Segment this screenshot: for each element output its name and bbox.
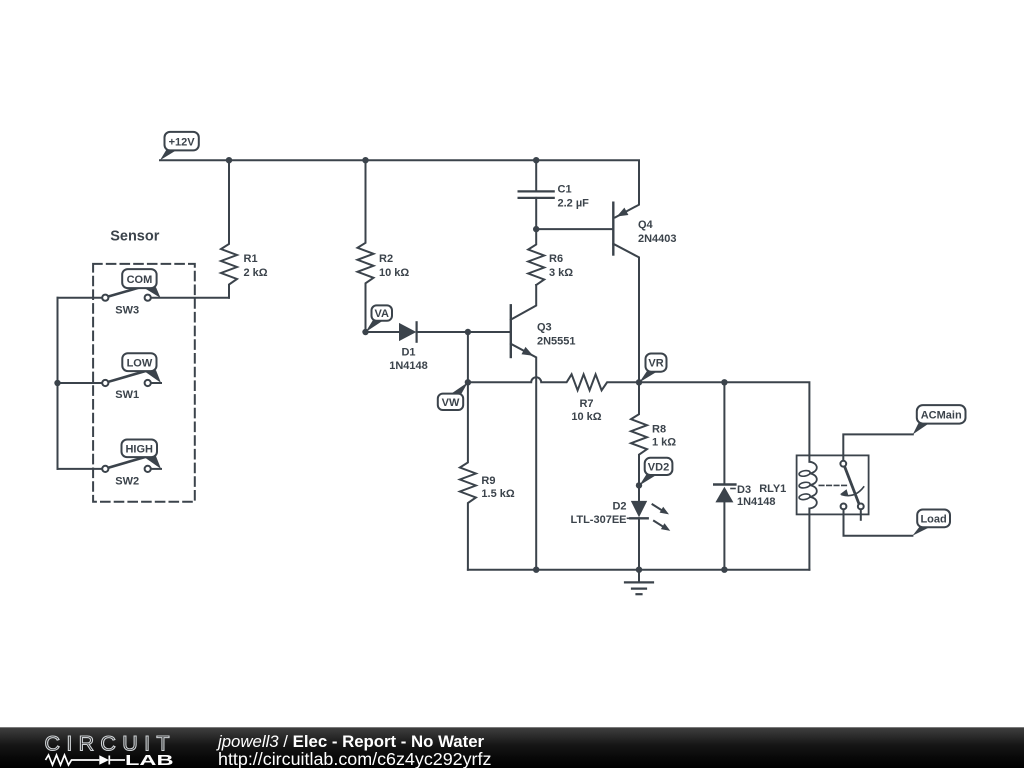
node: +12V/R1	[226, 157, 232, 163]
svg-text:2N4403: 2N4403	[638, 233, 677, 245]
svg-text:C1: C1	[558, 184, 572, 196]
svg-text:LTL-307EE: LTL-307EE	[570, 514, 626, 526]
resistor R2	[358, 160, 374, 332]
svg-text:1N4148: 1N4148	[737, 496, 776, 508]
resistor R9	[460, 382, 476, 569]
LED D2 (LTL-307EE)	[628, 501, 671, 531]
capacitor C1	[519, 191, 554, 198]
wire: C1 bottom lead	[535, 198, 537, 229]
wire: D1 cathode to Q3 base	[417, 331, 511, 333]
wire: SW3 to R1	[151, 297, 229, 299]
wire: D3 bottom lead	[723, 502, 725, 569]
svg-text:Load: Load	[920, 514, 946, 526]
wire: D3 top lead	[723, 382, 725, 484]
net flag +12V	[160, 132, 199, 160]
svg-text:2.2 µF: 2.2 µF	[558, 198, 590, 210]
node VW	[465, 379, 471, 385]
svg-text:R6: R6	[549, 253, 563, 265]
net flag VA	[366, 305, 393, 332]
transistor Q4 (2N4403 PNP)	[613, 203, 628, 255]
node: +12V/C1	[533, 157, 539, 163]
node: D2/ground rail	[636, 567, 642, 573]
svg-text:RLY1: RLY1	[759, 483, 786, 495]
diode D1 (1N4148)	[399, 322, 417, 341]
svg-text:10 kΩ: 10 kΩ	[379, 267, 409, 279]
svg-text:D3: D3	[737, 484, 751, 496]
svg-text:1N4148: 1N4148	[389, 360, 428, 372]
resistor R1	[221, 160, 237, 298]
svg-text:1.5 kΩ: 1.5 kΩ	[481, 488, 514, 500]
net flag VR	[639, 354, 666, 383]
switch SW3	[102, 285, 151, 301]
wire: base junction down to VW node	[467, 332, 469, 382]
net flag HIGH	[122, 440, 162, 469]
svg-text:SW3: SW3	[115, 305, 139, 317]
wire: VR rail to relay coil	[639, 382, 809, 461]
switch SW1	[102, 370, 161, 386]
transistor Q3 (2N5551 NPN)	[511, 285, 536, 570]
svg-text:2N5551: 2N5551	[537, 336, 576, 348]
wire: Q4 base	[536, 228, 613, 230]
node: D3/ground rail	[721, 567, 727, 573]
switch SW2	[102, 456, 161, 472]
svg-text:R7: R7	[579, 398, 593, 410]
svg-text:R8: R8	[652, 424, 666, 436]
svg-text:3 kΩ: 3 kΩ	[549, 267, 573, 279]
svg-text:10 kΩ: 10 kΩ	[571, 411, 601, 423]
svg-text:SW2: SW2	[115, 476, 139, 488]
net flag LOW	[122, 353, 161, 383]
svg-text:Sensor: Sensor	[110, 229, 160, 245]
svg-text:D2: D2	[612, 501, 626, 513]
node: sensor left rail junction	[54, 380, 60, 386]
wire: VD2 node to D2 anode	[638, 485, 640, 501]
CircuitLab logo	[0, 728, 200, 768]
wire: left stub to SW3	[58, 297, 103, 299]
net flag VW	[438, 382, 468, 410]
wire: VA node to D1 anode	[366, 331, 400, 333]
node: Q3 emitter/ground rail	[533, 567, 539, 573]
wire: ground rail	[468, 569, 810, 571]
svg-text:R2: R2	[379, 253, 393, 265]
wire: VW rail with hop over Q3 emitter, into resistor R7	[468, 374, 639, 390]
svg-text:VW: VW	[442, 397, 460, 409]
svg-text:HIGH: HIGH	[125, 444, 153, 456]
svg-text:SW1: SW1	[115, 389, 139, 401]
net flag COM	[122, 269, 160, 298]
svg-text:+12V: +12V	[169, 136, 196, 148]
svg-text:2 kΩ: 2 kΩ	[244, 267, 268, 279]
svg-text:VA: VA	[374, 308, 389, 320]
svg-text:D1: D1	[401, 347, 415, 359]
wire: ACMain to relay common	[843, 434, 913, 460]
node: +12V/R2	[362, 157, 368, 163]
diode D3 (1N4148 flyback)	[714, 485, 735, 503]
wire: left stub to SW2	[58, 468, 103, 470]
svg-text:R1: R1	[244, 253, 258, 265]
resistor R8	[631, 382, 647, 485]
relay RLY1	[797, 455, 869, 519]
wire: Q4 collector to VR node	[613, 244, 639, 382]
wire: sensor left rail	[57, 298, 59, 469]
ground	[625, 570, 653, 595]
wire: relay coil bottom to ground rail	[808, 509, 810, 570]
resistor R6	[528, 229, 544, 285]
node VR	[636, 379, 642, 385]
node: C1/R6/Q4 base	[533, 226, 539, 232]
svg-text:VD2: VD2	[648, 462, 669, 474]
svg-text:1 kΩ: 1 kΩ	[652, 437, 676, 449]
wire: C1 top lead	[535, 160, 537, 191]
svg-text:VR: VR	[648, 358, 663, 370]
svg-text:Q4: Q4	[638, 219, 654, 231]
net flag ACMain	[913, 405, 966, 434]
wire: left stub to SW1	[58, 382, 103, 384]
node: D1/Q3 base junction	[465, 329, 471, 335]
svg-text:ACMain: ACMain	[921, 410, 962, 422]
net flag Load	[912, 510, 950, 536]
net flag VD2	[639, 458, 672, 486]
svg-text:R9: R9	[481, 475, 495, 487]
sensor enclosure (dashed)	[93, 264, 195, 502]
wire: D2 cathode to ground rail	[638, 518, 640, 569]
node: D3 top	[721, 379, 727, 385]
wire: +12V top rail into Q4 emitter	[160, 160, 639, 217]
wire: Load to relay contact	[844, 509, 913, 536]
node VA	[362, 329, 368, 335]
svg-text:LOW: LOW	[127, 357, 153, 369]
node VD2	[636, 482, 642, 488]
svg-text:Q3: Q3	[537, 322, 552, 334]
svg-text:COM: COM	[127, 274, 153, 286]
svg-text:LAB: LAB	[125, 752, 174, 768]
